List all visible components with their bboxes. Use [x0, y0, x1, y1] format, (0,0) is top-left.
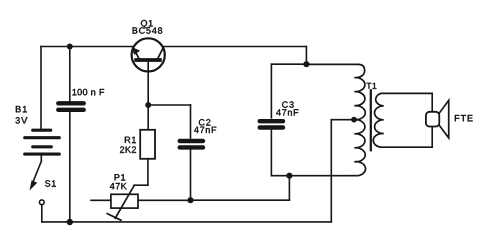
wire coil bottom horizontal	[271, 175, 356, 177]
wire feedback to coil	[191, 199, 290, 201]
label C3	[282, 101, 294, 107]
collector	[158, 47, 164, 58]
transformer core	[370, 90, 372, 150]
label 100nF	[73, 89, 105, 95]
wire below switch	[41, 205, 43, 222]
capacitor C3	[270, 64, 272, 118]
wire top-right corner down	[305, 47, 307, 65]
node top of 100nF	[67, 44, 73, 50]
label 2K2	[120, 146, 136, 152]
switch S1	[40, 156, 42, 162]
label B1	[16, 106, 27, 112]
P1 right lead	[138, 199, 191, 201]
label 47K	[110, 183, 127, 189]
speaker FTE	[431, 93, 433, 111]
label T1	[367, 83, 377, 89]
label R1	[125, 137, 136, 143]
node coil bottom junction	[286, 173, 292, 179]
potentiometer P1	[111, 194, 138, 208]
P1 left stub	[91, 199, 111, 201]
node top junction	[303, 61, 309, 67]
battery B1	[25, 130, 60, 154]
wire junction to C3	[271, 63, 306, 65]
label 3V	[16, 117, 28, 123]
wire top rail left segment	[41, 46, 133, 48]
capacitor 100nF	[69, 47, 71, 101]
transistor Q1	[132, 38, 165, 71]
label Q1	[141, 20, 153, 28]
label 47nF C2	[194, 127, 216, 133]
label P1	[115, 174, 126, 180]
capacitor C2	[148, 104, 190, 106]
wire tap riser from bottom rail	[330, 120, 332, 222]
resistor R1	[147, 105, 149, 130]
label 47nF C3	[276, 109, 298, 115]
node base junction	[145, 102, 151, 108]
label BC548	[133, 27, 163, 33]
node 100nF bottom on rail	[67, 219, 73, 225]
node tap on coil	[351, 117, 357, 123]
label S1	[45, 180, 56, 186]
wire top rail right segment	[163, 46, 306, 48]
base lead down	[147, 62, 149, 105]
label FTE	[455, 115, 473, 121]
emitter with arrow	[133, 48, 138, 58]
transformer T1 primary	[306, 64, 365, 175]
transformer T1 secondary	[373, 93, 432, 147]
node C2 bottom	[187, 197, 193, 203]
label C2	[199, 119, 211, 125]
wire left rail vertical	[40, 47, 42, 130]
wire bottom rail	[42, 221, 332, 223]
